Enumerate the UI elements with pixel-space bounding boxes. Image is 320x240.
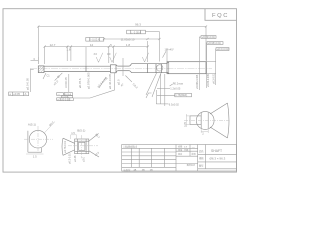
- svg-text:标准化: 标准化: [124, 168, 132, 172]
- svg-text:0.05 A: 0.05 A: [65, 93, 72, 96]
- svg-text:签名: 签名: [178, 152, 182, 156]
- svg-text:FQC: FQC: [212, 13, 229, 19]
- svg-text:1.8: 1.8: [67, 48, 71, 52]
- svg-text:4.78: 4.78: [184, 122, 187, 127]
- svg-text:绘图: 绘图: [178, 145, 182, 149]
- svg-text:⌀2.46: ⌀2.46: [74, 155, 77, 162]
- svg-text:10°×45°: 10°×45°: [165, 47, 174, 51]
- svg-text:12.7: 12.7: [50, 43, 56, 47]
- svg-text:⌀0.05: ⌀0.05: [13, 92, 20, 96]
- svg-text:11.05±0.10: 11.05±0.10: [121, 37, 135, 41]
- svg-text:⌀5.988-0.005: ⌀5.988-0.005: [196, 74, 199, 89]
- svg-text:4B: 4B: [134, 170, 137, 172]
- svg-text:⌀2.978-0.005: ⌀2.978-0.005: [86, 72, 90, 89]
- svg-text:⌀5.98(-0.01): ⌀5.98(-0.01): [208, 42, 221, 45]
- svg-text:⌀2.0: ⌀2.0: [117, 79, 121, 85]
- svg-text:1.76(REF): 1.76(REF): [175, 93, 187, 97]
- svg-text:3B: 3B: [142, 170, 145, 172]
- svg-text:⊥ 0.05 A: ⊥ 0.05 A: [131, 30, 142, 34]
- svg-text:R0.3: R0.3: [94, 133, 100, 139]
- svg-text:⌀5.99-0.005: ⌀5.99-0.005: [207, 73, 210, 87]
- svg-text:⌀ 3.00-0.01: ⌀ 3.00-0.01: [57, 98, 70, 101]
- svg-text:规格: 规格: [199, 156, 204, 160]
- svg-text:3: 3: [33, 57, 35, 61]
- svg-text:C0.3: C0.3: [132, 82, 139, 89]
- svg-text:1.2±0.05: 1.2±0.05: [170, 87, 181, 91]
- svg-text:R0.2max: R0.2max: [173, 81, 184, 85]
- svg-text:B(5:1): B(5:1): [77, 129, 85, 133]
- svg-text:⌀3.0-0.05: ⌀3.0-0.05: [26, 78, 30, 90]
- svg-text:A(5:1): A(5:1): [28, 123, 36, 127]
- svg-text:1.5: 1.5: [71, 131, 75, 135]
- svg-text:⌀0.05 A: ⌀0.05 A: [78, 78, 82, 88]
- svg-text:2B: 2B: [150, 170, 153, 172]
- svg-text:⌀3.0-0.008: ⌀3.0-0.008: [96, 76, 109, 89]
- svg-text:1.8: 1.8: [126, 43, 131, 47]
- svg-text:⌀4.78-0.01: ⌀4.78-0.01: [64, 140, 67, 153]
- svg-text:⌀3.0: ⌀3.0: [83, 156, 86, 162]
- svg-text:6.5±0.02: 6.5±0.02: [169, 102, 180, 106]
- svg-text:C1: C1: [47, 75, 51, 78]
- svg-text:SHAFT: SHAFT: [211, 149, 222, 153]
- svg-text:5: 5: [110, 43, 112, 47]
- svg-text:2: 2: [202, 131, 204, 135]
- svg-text:⌀2.0: ⌀2.0: [52, 79, 59, 86]
- svg-text:A: A: [25, 92, 27, 96]
- svg-text:⚲ 0.03 A: ⚲ 0.03 A: [90, 38, 100, 42]
- svg-text:—: —: [192, 145, 195, 149]
- svg-text:45°: 45°: [120, 83, 125, 88]
- svg-text:96.3: 96.3: [135, 23, 141, 27]
- svg-text:⌀5.99(-0.01): ⌀5.99(-0.01): [202, 36, 215, 39]
- svg-text:上海达通机械有限公司: 上海达通机械有限公司: [123, 144, 137, 148]
- svg-text:Ø6.3 × 96.3: Ø6.3 × 96.3: [210, 156, 226, 160]
- svg-text:3.6: 3.6: [93, 53, 97, 56]
- svg-text:12: 12: [90, 43, 94, 47]
- svg-text:⌀6.3-0.01: ⌀6.3-0.01: [213, 73, 216, 84]
- svg-text:⌀6.3-0.01: ⌀6.3-0.01: [69, 153, 72, 164]
- svg-text:图号: 图号: [199, 164, 204, 168]
- svg-text:⌀6.3(-0.01): ⌀6.3(-0.01): [217, 48, 229, 51]
- svg-text:⌀2.46-0.005: ⌀2.46-0.005: [108, 73, 112, 89]
- svg-text:1.5: 1.5: [33, 155, 37, 159]
- svg-text:批准: 批准: [192, 152, 196, 156]
- svg-text:Ø3.2: Ø3.2: [48, 120, 55, 127]
- svg-text:3.0±0.05: 3.0±0.05: [64, 77, 68, 88]
- svg-text:品名: 品名: [199, 149, 204, 153]
- svg-text:0.9: 0.9: [107, 53, 111, 56]
